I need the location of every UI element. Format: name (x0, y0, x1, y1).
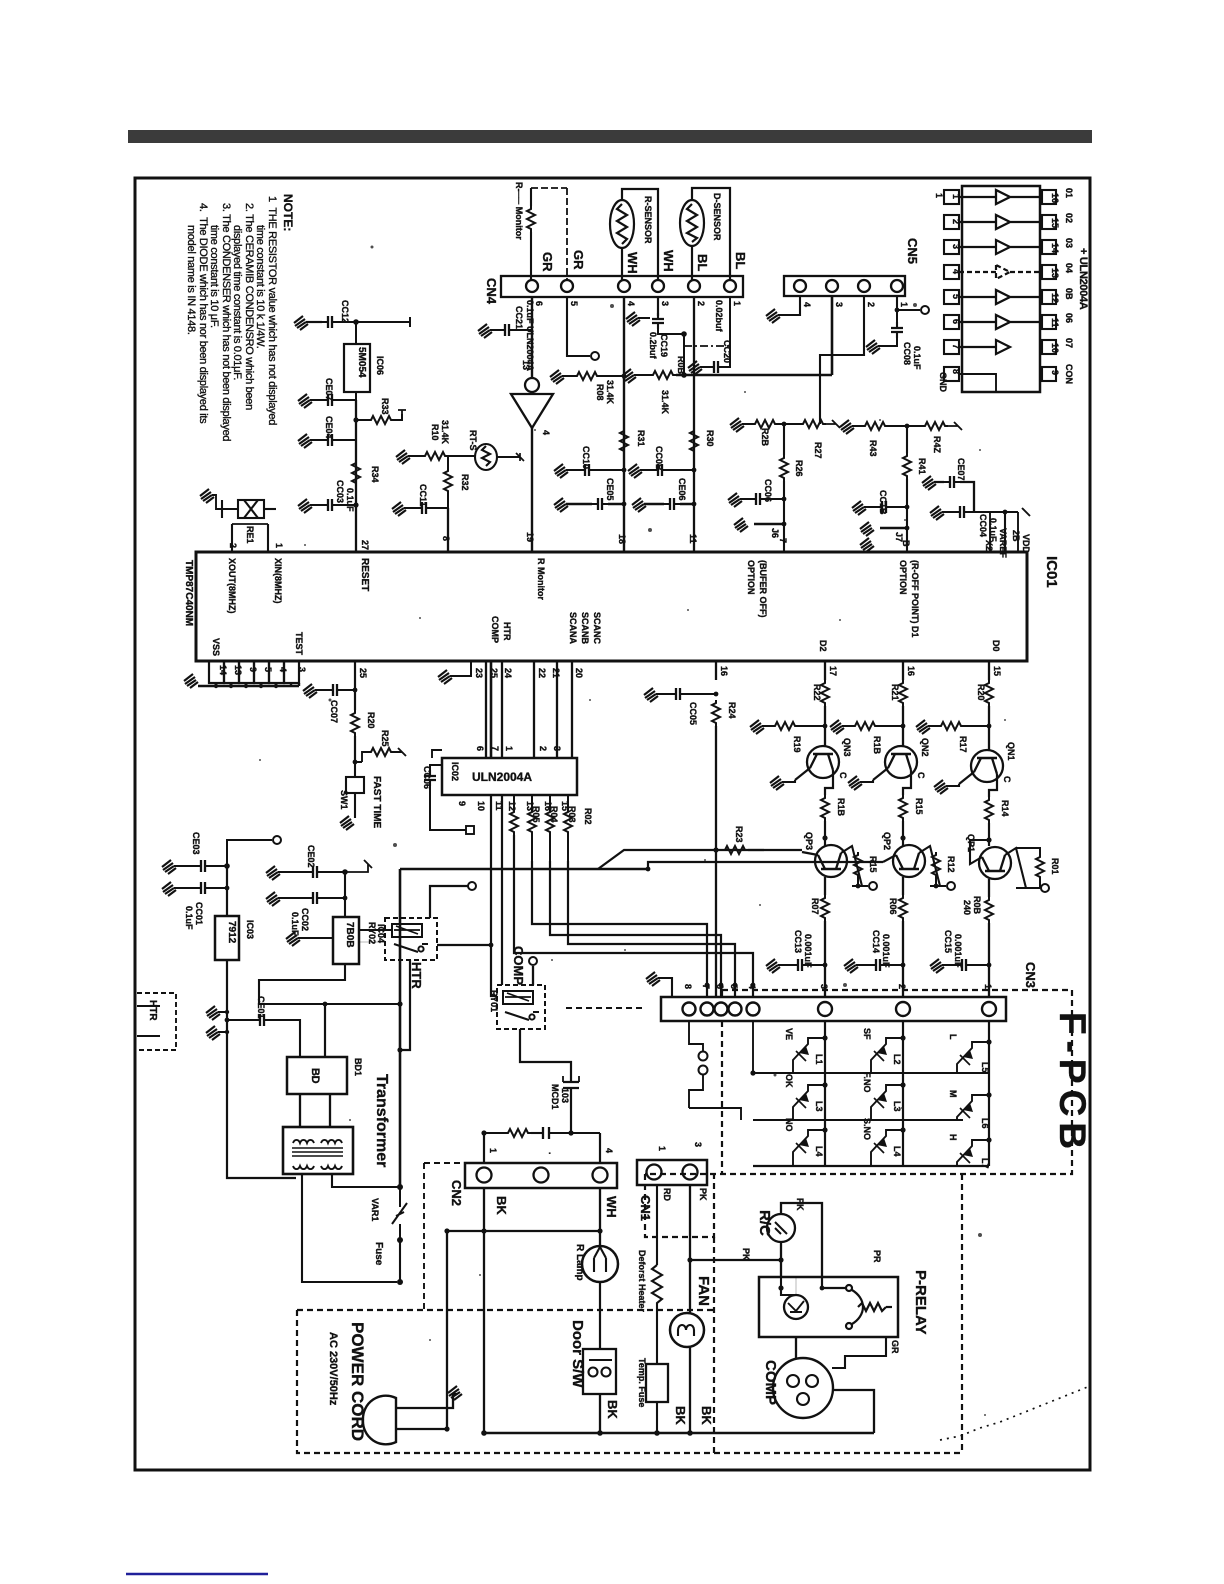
run capacitor R/C (767, 1214, 795, 1242)
resistor R30 (690, 428, 698, 454)
svg-text:CE04: CE04 (324, 416, 334, 439)
svg-text:BK: BK (673, 1406, 688, 1425)
wire pin5 down with open terminal (567, 297, 590, 356)
relay contact + coil (846, 1285, 892, 1329)
rail from CN3 pin1 (988, 1021, 990, 1166)
svg-text:C: C (916, 772, 926, 779)
svg-text:PK: PK (698, 1188, 708, 1201)
svg-text:31.4K: 31.4K (440, 420, 450, 445)
svg-text:VAREF: VAREF (998, 528, 1008, 558)
svg-text:3. The CONDENSER which has not: 3. The CONDENSER which has not been disp… (220, 203, 232, 441)
svg-text:CC12: CC12 (340, 300, 350, 323)
svg-text:31.4K: 31.4K (605, 380, 615, 405)
svg-text:CE07: CE07 (956, 458, 966, 481)
capacitor CC20 (708, 361, 724, 373)
overload protector (784, 1295, 808, 1319)
svg-text:(BUFER OFF): (BUFER OFF) (758, 560, 768, 618)
svg-text:R43: R43 (868, 440, 878, 457)
wire pin4 to ground (778, 297, 800, 315)
wire pin3 cluster CC19 (657, 297, 659, 316)
svg-text:D2: D2 (818, 640, 828, 652)
resistor R27 (800, 420, 826, 428)
transformer T1 (283, 1127, 353, 1174)
resistor R16 (825, 778, 833, 795)
transistor QP3 (802, 845, 862, 886)
wire (338, 317, 410, 327)
svg-text:CC06: CC06 (422, 766, 432, 789)
capacitor CC1B (876, 501, 892, 513)
svg-text:4: 4 (604, 1148, 614, 1153)
svg-text:7: 7 (778, 538, 788, 543)
wire BD1 top right (324, 1004, 326, 1057)
svg-text:R4Z: R4Z (932, 436, 942, 454)
svg-text:0.02buf: 0.02buf (714, 300, 724, 333)
relay RY01 (497, 985, 545, 1029)
svg-text:L4: L4 (814, 1146, 824, 1157)
svg-text:S.NO: S.NO (862, 1118, 872, 1140)
driver IC02 ULN2004A (442, 758, 577, 795)
capacitor CE02 (307, 866, 323, 878)
wire pin4 down (623, 297, 625, 552)
svg-text:WH: WH (604, 1196, 619, 1218)
svg-text:R31: R31 (636, 430, 646, 447)
svg-text:QN2: QN2 (920, 738, 930, 757)
svg-text:16: 16 (1050, 193, 1060, 203)
svg-text:BL: BL (695, 254, 710, 271)
svg-text:1: 1 (732, 301, 742, 306)
resistor R0B 240 (988, 879, 990, 897)
resistor R31 (620, 428, 628, 454)
svg-text:12: 12 (507, 801, 517, 811)
svg-text:D0: D0 (991, 640, 1001, 652)
microcontroller IC01 TMP87C40NM (196, 552, 1027, 661)
wire to R/C (690, 1259, 781, 1261)
connector CN1 (637, 1160, 707, 1185)
svg-text:CC01: CC01 (194, 902, 204, 925)
svg-text:SF: SF (862, 1028, 872, 1040)
svg-text:14: 14 (218, 665, 228, 675)
wire RY01 top terminal (532, 966, 534, 985)
wire pin2 down (693, 297, 695, 552)
R-SENSOR (610, 189, 658, 280)
wire reset rail (355, 400, 357, 552)
option cluster R43 R41 R42 CC1B J7 (840, 420, 854, 434)
svg-text:QP1: QP1 (966, 834, 976, 852)
LED L6 (957, 1095, 989, 1120)
bus wire (400, 868, 648, 871)
svg-text:R10: R10 (430, 424, 440, 441)
svg-text:2. The CERAMIB CONDENSRO which: 2. The CERAMIB CONDENSRO which been (243, 203, 255, 410)
svg-text:R12: R12 (946, 856, 956, 873)
resistor R42 (922, 422, 948, 430)
svg-text:BL: BL (733, 252, 748, 269)
svg-text:FAST TIME: FAST TIME (371, 776, 382, 829)
svg-text:Door S/W: Door S/W (569, 1320, 586, 1388)
resistor R07 (824, 877, 826, 895)
svg-text:CN3: CN3 (1023, 962, 1038, 988)
svg-text:L6: L6 (980, 1118, 990, 1129)
temp fuse (646, 1364, 668, 1402)
svg-text:R33: R33 (380, 398, 390, 415)
svg-text:0.001uF: 0.001uF (953, 934, 963, 968)
svg-text:1: 1 (899, 302, 909, 307)
main vertical bus (399, 869, 402, 1187)
svg-text:R15: R15 (914, 798, 924, 815)
capacitor CC0B (652, 464, 668, 476)
IC06 5M054 (344, 344, 370, 392)
svg-text:FAN: FAN (695, 1276, 712, 1306)
svg-text:CC15: CC15 (943, 930, 953, 953)
svg-text:COMP: COMP (762, 1360, 779, 1405)
svg-text:R24: R24 (727, 702, 737, 719)
svg-text:4: 4 (626, 301, 636, 306)
capacitor CC05 on pin16 line (715, 661, 717, 680)
input pin boxes 1-8 (944, 190, 959, 381)
transistor column QN3/QP3 (824, 661, 826, 680)
wires CN2 down (483, 1188, 485, 1433)
svg-text:4. The DIODE which has nor be: 4. The DIODE which has nor been displaye… (197, 203, 209, 424)
svg-text:VAR1: VAR1 (370, 1198, 380, 1221)
capacitor CC06b (430, 765, 442, 770)
svg-text:R30: R30 (705, 430, 715, 447)
svg-text:16: 16 (906, 666, 916, 676)
svg-text:CN1: CN1 (638, 1195, 653, 1221)
svg-text:4: 4 (278, 667, 288, 672)
svg-text:4: 4 (747, 984, 757, 989)
svg-text:CC11: CC11 (418, 484, 428, 507)
svg-text:2: 2 (228, 543, 238, 548)
svg-text:RESET: RESET (359, 558, 370, 591)
svg-text:IC02: IC02 (450, 762, 460, 781)
svg-text:SCANA: SCANA (568, 612, 578, 645)
wire pin2 (820, 297, 864, 424)
svg-text:20: 20 (574, 668, 584, 678)
svg-text:10: 10 (476, 801, 486, 811)
wire QP base lines (598, 850, 802, 869)
svg-text:15: 15 (1050, 218, 1060, 228)
capacitor CE06 (664, 498, 680, 510)
svg-text:WH: WH (661, 250, 676, 272)
svg-text:2: 2 (866, 302, 876, 307)
svg-text:2: 2 (538, 746, 548, 751)
svg-text:GR: GR (540, 252, 555, 272)
svg-text:OPTION: OPTION (898, 560, 908, 595)
svg-text:F-PCB: F-PCB (1052, 1012, 1093, 1155)
svg-text:L3: L3 (892, 1101, 902, 1112)
svg-text:13: 13 (1050, 268, 1060, 278)
capacitor CC04 (954, 506, 970, 518)
capacitor CE01 (254, 1014, 270, 1026)
svg-text:R19: R19 (792, 736, 802, 753)
jumper J6 (754, 523, 784, 526)
LED L1 (793, 1038, 825, 1073)
svg-text:+ ULN2004A: + ULN2004A (1077, 248, 1089, 310)
svg-text:21: 21 (551, 668, 561, 678)
svg-text:CC0B: CC0B (654, 446, 664, 471)
wires COMP (795, 1337, 797, 1359)
svg-text:.: . (547, 1152, 557, 1155)
svg-text:03: 03 (1064, 238, 1074, 248)
defrost heater (656, 1185, 658, 1265)
svg-text:PK: PK (795, 1198, 805, 1211)
svg-text:6: 6 (715, 984, 725, 989)
svg-text:0B: 0B (1064, 288, 1074, 300)
compressor COMP (773, 1358, 833, 1418)
svg-text:5: 5 (263, 667, 273, 672)
svg-text:BK: BK (605, 1400, 620, 1419)
LED L2 (871, 1038, 903, 1073)
svg-text:CE02: CE02 (306, 845, 316, 868)
svg-text:CC07: CC07 (329, 700, 339, 723)
svg-text:1: 1 (657, 1146, 667, 1151)
svg-text:25: 25 (489, 668, 499, 678)
svg-text:0.1uF: 0.1uF (912, 346, 922, 370)
page frame (135, 178, 1090, 1470)
svg-text:7: 7 (701, 984, 711, 989)
svg-text:2: 2 (696, 301, 706, 306)
svg-text:5: 5 (569, 301, 579, 306)
thermistor RT-S (448, 444, 524, 470)
relay RY02 (385, 918, 437, 960)
svg-text:22: 22 (537, 668, 547, 678)
wires IC01 pins to IC02 (486, 661, 572, 758)
svg-text:CN2: CN2 (449, 1180, 464, 1206)
resistor R34 (352, 460, 360, 486)
svg-text:1: 1 (274, 543, 284, 548)
svg-text:R2B: R2B (760, 428, 770, 447)
top dark bar (128, 130, 1092, 143)
svg-text:11: 11 (1050, 318, 1060, 328)
LED L4a (793, 1130, 825, 1166)
svg-text:R02: R02 (583, 808, 593, 825)
bottom small pin boxes (209, 661, 299, 683)
svg-text:IC04: IC04 (376, 924, 386, 943)
svg-text:06: 06 (1064, 313, 1074, 323)
svg-text:9: 9 (248, 667, 258, 672)
snubber R C on CN2 line (484, 1132, 505, 1134)
transistor QN3 (795, 746, 839, 780)
svg-text:L: L (948, 1034, 958, 1040)
capacitor CC02 (307, 892, 323, 904)
svg-text:MCD1: MCD1 (550, 1084, 560, 1110)
svg-text:27: 27 (360, 540, 370, 550)
R monitor resistor above pin 6 (527, 206, 535, 232)
resistor R19 (750, 720, 764, 734)
LED L3a (793, 1085, 825, 1120)
svg-text:CN5: CN5 (905, 238, 920, 264)
svg-text:R21: R21 (890, 684, 900, 701)
capacitor CC01 (195, 882, 211, 894)
svg-text:CC05: CC05 (688, 702, 698, 725)
svg-text:R14: R14 (1000, 800, 1010, 817)
svg-text:L7: L7 (980, 1158, 990, 1169)
capacitor CC11 (416, 502, 432, 514)
ground pair (206, 1006, 220, 1020)
svg-text:BK: BK (494, 1196, 509, 1215)
resistor R43 (862, 422, 888, 430)
resistor R03 (549, 795, 551, 809)
svg-text:9: 9 (457, 801, 467, 806)
capacitor CC03 (322, 499, 338, 511)
connector CN2 (465, 1163, 617, 1188)
resistor R15b (854, 852, 862, 878)
svg-text:WH: WH (625, 252, 640, 274)
wire to open terminal (227, 840, 272, 866)
svg-text:R34: R34 (370, 466, 380, 483)
resistor R02 (567, 795, 569, 809)
svg-text:R01: R01 (1050, 858, 1060, 875)
svg-text:7: 7 (490, 746, 500, 751)
LED L4b (871, 1130, 903, 1166)
svg-text:R32: R32 (460, 474, 470, 491)
svg-text:AC 230V/50Hz: AC 230V/50Hz (327, 1332, 339, 1406)
capacitor CC21 (499, 324, 515, 336)
wire RY02 down (400, 960, 410, 1050)
svg-text:R-── Monitor: R-── Monitor (514, 182, 524, 240)
svg-text:OPTION: OPTION (746, 560, 756, 595)
wire RY01 down to MCD1 (520, 1029, 571, 1082)
svg-text:CC08: CC08 (902, 342, 912, 365)
regulator IC04 7B0B (333, 917, 359, 964)
capacitor CC14 (901, 963, 906, 968)
svg-text:3: 3 (552, 746, 562, 751)
LED L5 (957, 1042, 989, 1073)
transistor QN2 (873, 746, 917, 780)
svg-text:1: 1 (488, 1148, 498, 1153)
svg-text:XOUT(8MHZ): XOUT(8MHZ) (227, 558, 237, 614)
svg-text:R20: R20 (366, 712, 376, 729)
resistor R0B (622, 369, 636, 383)
F-PCB dashed boundary (645, 990, 1072, 1237)
resistor R15 (903, 778, 911, 795)
svg-text:2B: 2B (1011, 530, 1021, 542)
svg-text:RE1: RE1 (245, 526, 255, 544)
scan specks (259, 246, 1006, 1417)
capacitor CC13 (823, 963, 828, 968)
svg-text:QN3: QN3 (842, 738, 852, 757)
svg-text:CC04: CC04 (978, 514, 988, 537)
driver triangles (959, 190, 1042, 392)
switch SW1 FAST TIME (346, 777, 364, 793)
svg-text:R-SENSOR: R-SENSOR (643, 196, 653, 244)
svg-text:RY01: RY01 (489, 990, 499, 1012)
svg-text:M: M (948, 1090, 958, 1098)
svg-text:R1B: R1B (872, 736, 882, 755)
svg-text:SCANC: SCANC (592, 612, 602, 645)
svg-text:BD1: BD1 (353, 1058, 363, 1076)
2-pin connector stub (699, 1052, 708, 1061)
svg-text:SCANB: SCANB (580, 612, 590, 645)
svg-text:CON: CON (1064, 364, 1074, 384)
wires transformer bottom (302, 1174, 397, 1282)
svg-text:R17: R17 (958, 736, 968, 753)
IC05 ULN2004A body (962, 186, 1040, 392)
wires BD1 to transformer (300, 1094, 330, 1127)
svg-text:0.1uF: 0.1uF (345, 488, 355, 512)
output pin boxes 16-9 (1042, 190, 1056, 381)
svg-text:RY02: RY02 (367, 922, 377, 944)
wire pin6 down (531, 297, 533, 378)
svg-text:R07: R07 (810, 898, 820, 915)
transistor QP2 (883, 845, 940, 886)
svg-text:01: 01 (1064, 188, 1074, 198)
resistor R24 (712, 700, 720, 726)
svg-text:TMP87C40NM: TMP87C40NM (183, 560, 194, 626)
svg-text:R/C: R/C (756, 1210, 773, 1236)
svg-text:L5: L5 (980, 1062, 990, 1073)
svg-text:4: 4 (802, 302, 812, 307)
capacitor CC08 (891, 322, 903, 338)
ground bus under pin boxes (198, 683, 299, 686)
svg-text:13: 13 (233, 665, 243, 675)
svg-text:X2: X2 (984, 540, 994, 551)
svg-text:3: 3 (297, 667, 307, 672)
svg-text:8: 8 (441, 536, 451, 541)
svg-text:L3: L3 (814, 1101, 824, 1112)
svg-text:C: C (838, 772, 848, 779)
svg-text:model name is IN 4148.: model name is IN 4148. (185, 225, 197, 335)
resistor R10 31.4K (422, 452, 448, 460)
rail from CN3 pin2 (902, 1021, 904, 1166)
jumper J7 (880, 527, 907, 530)
capacitor CE07a (322, 394, 338, 406)
buffer gate U-13/4 (511, 378, 553, 552)
svg-text:103: 103 (560, 1088, 570, 1103)
bottom bus wire (484, 1432, 874, 1435)
capacitor CE05 (592, 498, 608, 510)
svg-text:4: 4 (541, 430, 551, 435)
svg-text:R26: R26 (794, 460, 804, 477)
svg-text:10: 10 (1050, 343, 1060, 353)
ground (298, 394, 312, 408)
capacitor CC10 (579, 464, 595, 476)
svg-text:QN1: QN1 (1006, 742, 1016, 761)
svg-text:17: 17 (828, 666, 838, 676)
svg-text:R23: R23 (734, 826, 744, 843)
svg-text:J6: J6 (770, 528, 780, 538)
svg-text:HTR: HTR (409, 962, 424, 989)
svg-text:7B0B: 7B0B (344, 922, 355, 948)
svg-text:VSS: VSS (211, 638, 221, 656)
resistor R33 (368, 416, 394, 424)
resistor R25 (368, 748, 394, 756)
resistor R04 (531, 795, 533, 809)
svg-text:L4: L4 (892, 1146, 902, 1157)
varistor VAR1 in series (392, 1187, 407, 1240)
resistor R41 (903, 453, 911, 479)
svg-text:1: 1 (934, 193, 944, 198)
svg-text:BD: BD (309, 1068, 321, 1084)
svg-text:CE01: CE01 (256, 996, 266, 1019)
svg-text:11: 11 (688, 534, 698, 544)
dash-dot option link (684, 345, 730, 347)
wire pin1 (897, 297, 920, 310)
transistor QP1 (970, 840, 1026, 888)
svg-text:9: 9 (1050, 370, 1060, 375)
power cord plug (363, 1396, 396, 1445)
svg-text:R15: R15 (868, 856, 878, 873)
resistor R01 (1036, 854, 1044, 880)
svg-text:C: C (1002, 776, 1012, 783)
resistor R32 (444, 468, 452, 494)
svg-text:B: B (901, 540, 911, 547)
varistor MCD1 103 (563, 1076, 579, 1108)
svg-text:CC13: CC13 (793, 930, 803, 953)
svg-text:23: 23 (474, 668, 484, 678)
svg-text:13: 13 (521, 360, 531, 370)
thick rail to CN5 pin3 (676, 297, 832, 375)
ground (286, 932, 300, 946)
